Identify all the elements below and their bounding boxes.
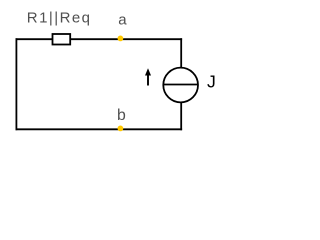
node a dot — [118, 36, 124, 42]
current source bar — [163, 84, 198, 86]
wire left (top-left corner to bottom-left corner) — [15, 39, 17, 129]
wire top (top-left corner through R1||Req and node a to top-right corner) — [16, 38, 181, 40]
resistor R1||Req — [53, 34, 71, 45]
wire bottom (bottom-left corner through node b to bottom-right corner) — [16, 128, 181, 130]
svg-text:a: a — [118, 12, 127, 29]
svg-text:R1||Req: R1||Req — [27, 10, 92, 27]
current source J (circle with bar) — [163, 68, 198, 103]
node b dot — [118, 125, 124, 131]
wire right (top-right corner through source J to bottom-right corner) — [180, 39, 182, 129]
svg-text:J: J — [207, 71, 216, 91]
current direction arrow — [145, 68, 151, 85]
svg-text:b: b — [117, 107, 126, 124]
